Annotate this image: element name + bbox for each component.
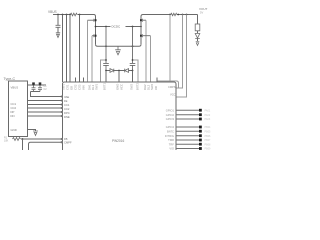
wire cap gnd bus: [31, 92, 63, 97]
svg-text:DNE: DNE: [64, 115, 70, 119]
svg-text:GPIO3: GPIO3: [166, 117, 175, 121]
wire: [114, 70, 119, 72]
diode D1: [110, 69, 114, 73]
ground: [33, 131, 38, 136]
wire GND pin: [28, 130, 36, 132]
wire CC1: [28, 100, 63, 102]
node VBUS dots: [33, 84, 41, 86]
svg-text:VIN: VIN: [81, 85, 85, 90]
wire vertical to IC pin: [69, 15, 71, 83]
node bottom rail dots: [105, 45, 133, 47]
capacitor C4: [32, 82, 35, 84]
svg-text:PA03: PA03: [205, 118, 211, 121]
IC left pin labels: [64, 95, 72, 145]
svg-text:PA02: PA02: [205, 114, 211, 117]
wire VBUS out: [28, 84, 47, 86]
wire vertical to IC pin: [79, 15, 81, 83]
svg-text:PW2016: PW2016: [112, 139, 124, 143]
svg-text:GPIO2: GPIO2: [166, 113, 175, 117]
svg-text:PB09: PB09: [205, 148, 212, 150]
svg-text:TMR: TMR: [168, 138, 174, 142]
svg-text:10K: 10K: [4, 140, 9, 143]
svg-text:CMPF: CMPF: [64, 141, 72, 145]
junction dots on top rail: [57, 14, 187, 16]
svg-text:GPIO1: GPIO1: [166, 108, 175, 112]
svg-text:CC1: CC1: [64, 103, 70, 107]
diode D2: [125, 69, 129, 73]
ground: [196, 41, 200, 45]
capacitor C5: [39, 82, 42, 84]
IC right top pin labels: [168, 85, 176, 97]
svg-text:FE: FE: [64, 99, 68, 103]
svg-text:BST2: BST2: [136, 83, 140, 90]
wire bst row: [106, 70, 110, 72]
svg-text:IOTRIG: IOTRIG: [165, 134, 174, 138]
wire top rail right: [141, 15, 171, 20]
node SW dots: [95, 26, 142, 28]
ground: [56, 33, 60, 38]
wire vertical to IC pin: [66, 15, 68, 83]
wire top rail left end corner into Q1: [78, 15, 96, 20]
wire VCC top right: [179, 15, 183, 89]
ground: [115, 46, 121, 55]
svg-text:PB07: PB07: [205, 139, 212, 142]
wire gate Q2 down: [91, 36, 93, 82]
svg-text:VCC: VCC: [170, 93, 176, 97]
svg-text:VIO: VIO: [169, 147, 174, 150]
pin circles left edge: [61, 96, 63, 143]
wire bridge bottom rail: [96, 44, 142, 46]
svg-text:GPIO4: GPIO4: [166, 125, 175, 129]
svg-text:CC2: CC2: [64, 107, 70, 111]
wire SW1 leg: [95, 27, 97, 45]
svg-text:VAE: VAE: [64, 95, 69, 99]
wire VCC2 right: [176, 15, 187, 98]
svg-text:BATC: BATC: [167, 129, 174, 133]
wire DN: [28, 111, 63, 113]
resistor R2 inline current sense: [171, 13, 177, 15]
wires right pins: [176, 110, 200, 148]
wire SW2 leg: [140, 27, 142, 45]
wire top rail to VOUT: [177, 14, 198, 16]
wire branch left: [101, 60, 107, 82]
resistor R1 inline current sense: [71, 13, 78, 16]
svg-text:VBUS: VBUS: [48, 10, 57, 14]
svg-text:SW2: SW2: [130, 83, 134, 90]
wire extra: [28, 115, 63, 117]
transistor Q1 upper-left: [95, 19, 97, 27]
IC top pin stubs: [76, 78, 158, 83]
svg-text:VCC: VCC: [120, 84, 124, 90]
svg-text:5V: 5V: [200, 10, 203, 14]
wire gate Q1 down: [87, 20, 89, 82]
net name labels right of test points: [205, 109, 212, 150]
wire top rail left: [53, 14, 70, 16]
transistor Q3 upper-right: [140, 19, 142, 27]
svg-text:FB: FB: [64, 137, 68, 141]
svg-text:Type-C: Type-C: [4, 77, 16, 81]
LED D3: [195, 34, 200, 39]
wire CC2: [28, 104, 63, 106]
wire gate Q3 down: [145, 20, 147, 82]
svg-text:PB05: PB05: [205, 130, 212, 133]
node bst dots: [105, 70, 133, 72]
node branch dots: [105, 59, 133, 61]
IC right pin rows: [165, 108, 175, 150]
inductor L1 mid rail: [96, 26, 111, 28]
wire gate Q4 down: [150, 36, 152, 82]
wire corner into CMPS pin: [157, 81, 179, 88]
svg-text:CMPS: CMPS: [168, 85, 176, 89]
svg-text:DN: DN: [11, 114, 15, 118]
wire comp down: [22, 139, 24, 151]
svg-text:BST1: BST1: [103, 83, 107, 90]
svg-text:SW1: SW1: [95, 83, 99, 90]
wire branch right: [133, 60, 139, 82]
capacitor C2 bootstrap left: [103, 27, 109, 71]
wire comp pin: [29, 142, 63, 150]
test point squares: [199, 109, 202, 150]
IC U1 main: [63, 82, 177, 153]
IC top pin labels (rotated): [61, 83, 158, 90]
wire: [119, 70, 133, 72]
svg-text:TRF: TRF: [169, 142, 175, 146]
svg-text:PB04: PB04: [205, 126, 212, 129]
transistor Q4 lower-right: [140, 35, 142, 37]
svg-text:VBUS: VBUS: [11, 86, 19, 90]
wire vertical VIN to IC: [62, 15, 64, 83]
wire DP: [28, 107, 63, 109]
svg-text:GND: GND: [11, 128, 17, 132]
wire bst down: [106, 71, 133, 83]
transistor Q2 lower-left: [95, 35, 97, 37]
capacitor C1 input: [57, 15, 59, 26]
svg-text:PB08: PB08: [205, 143, 212, 146]
svg-text:PA01: PA01: [205, 109, 211, 112]
svg-text:PB06: PB06: [205, 135, 212, 138]
svg-text:DPC: DPC: [64, 111, 70, 115]
svg-text:DCDC: DCDC: [112, 25, 121, 29]
resistor R3 led: [197, 15, 199, 25]
wire vertical from VOUT rail to IC: [169, 15, 171, 83]
node R4 junction: [22, 138, 24, 140]
capacitor C3 bootstrap right: [130, 27, 136, 71]
